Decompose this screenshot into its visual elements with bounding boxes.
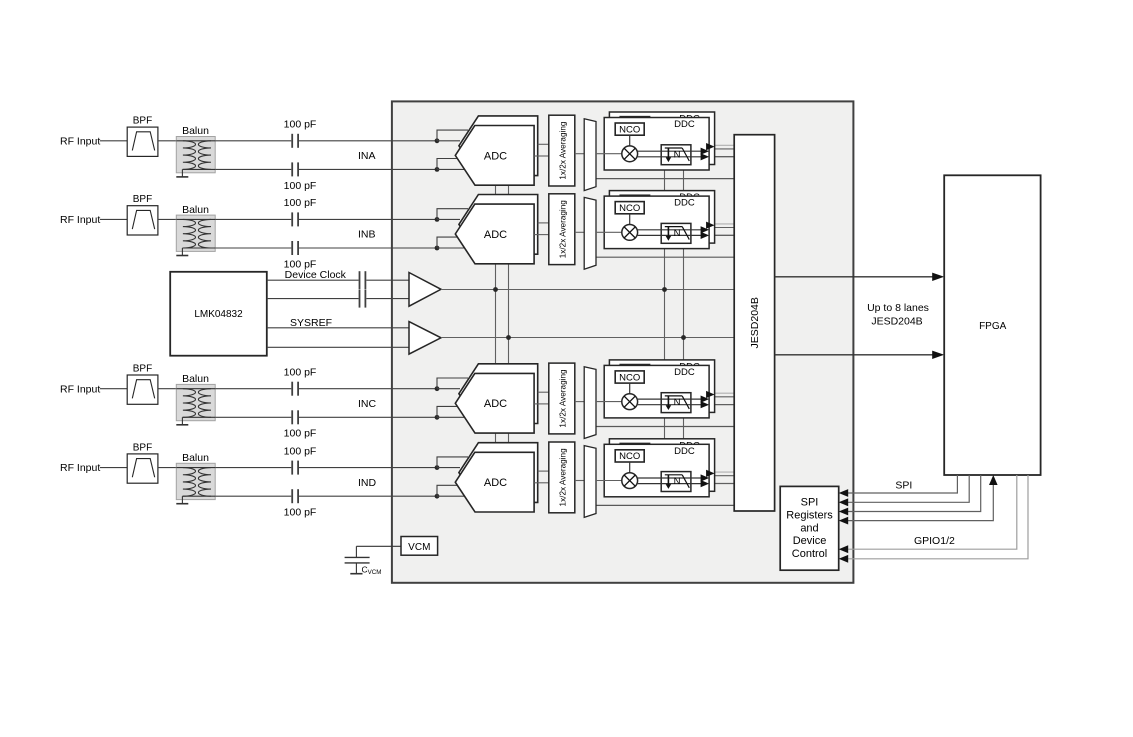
wire — [100, 388, 127, 390]
output mux (channel D) — [584, 446, 596, 518]
clock buffer (SYSREF) — [409, 322, 441, 355]
wire: channel C DDC outputs to JESD204B — [715, 392, 735, 394]
wire — [538, 391, 549, 393]
wire — [596, 401, 622, 403]
svg-text:RF Input: RF Input — [60, 462, 100, 474]
wire: SYSREF vertical rail (right) — [683, 169, 685, 451]
svg-text:100 pF: 100 pF — [284, 197, 317, 209]
ground — [350, 573, 362, 575]
wire — [215, 140, 291, 142]
ADC C (back) — [459, 364, 538, 424]
balun TA — [176, 137, 215, 173]
svg-text:INC: INC — [358, 398, 377, 410]
wire: SYSREF - — [267, 346, 409, 348]
wire — [158, 140, 176, 142]
balun TD — [176, 463, 215, 499]
wire: SPI 3 — [848, 475, 981, 512]
svg-text:VCM: VCM — [408, 542, 430, 553]
junction — [662, 287, 667, 292]
ground (balun) — [181, 248, 183, 256]
wire — [366, 279, 409, 281]
junction — [435, 167, 440, 172]
DDC (channel C) — [604, 365, 709, 418]
DDC (channel B, back) — [609, 191, 714, 244]
1x/2x averaging block (channel D) — [549, 442, 575, 513]
svg-text:NCO: NCO — [619, 203, 640, 214]
NCO (channel A) — [615, 123, 644, 135]
ADC D — [455, 452, 534, 512]
junction — [435, 386, 440, 391]
wire — [575, 153, 584, 155]
wire — [299, 467, 437, 469]
svg-text:SPI: SPI — [801, 497, 819, 509]
svg-text:RF Input: RF Input — [60, 214, 100, 226]
NCO (channel D) — [615, 450, 644, 462]
wire: back DDC output — [706, 222, 715, 229]
svg-text:100 pF: 100 pF — [284, 367, 317, 379]
wire: device clock vertical rail (left) — [495, 185, 497, 456]
svg-text:RF Input: RF Input — [60, 135, 100, 147]
mixer (channel B) — [622, 225, 638, 241]
svg-text:100 pF: 100 pF — [284, 119, 317, 131]
wire — [575, 401, 584, 403]
wire: SPI 4 (SDO) — [848, 484, 994, 521]
decimation filter &#8595;N (channel B) — [661, 223, 691, 243]
svg-text:N: N — [674, 228, 681, 239]
NCO (channel C) — [615, 371, 644, 383]
svg-text:100 pF: 100 pF — [284, 180, 317, 192]
svg-text:Device Clock: Device Clock — [285, 269, 347, 281]
wire — [538, 470, 549, 472]
wire: channel C DDC bypass to JESD204B — [596, 426, 734, 428]
band-pass filter BPF (channel A) — [127, 127, 158, 156]
band-pass filter BPF (channel C) — [127, 375, 158, 404]
DDC (channel C, back) — [609, 360, 714, 413]
svg-text:1x/2x Averaging: 1x/2x Averaging — [558, 200, 567, 259]
1x/2x averaging block (channel B) — [549, 194, 575, 265]
wire — [215, 416, 291, 418]
junction — [435, 494, 440, 499]
wire — [158, 218, 176, 220]
wire — [437, 378, 468, 389]
wire — [638, 477, 701, 479]
wire — [215, 495, 291, 497]
wire: serial lanes (upper) — [775, 276, 935, 278]
wire: GPIO2 — [848, 475, 1029, 559]
svg-text:BPF: BPF — [133, 194, 152, 205]
wire — [638, 234, 701, 236]
decimation glyphs — [667, 227, 669, 237]
DDC (channel A, back) — [609, 112, 714, 165]
DDC (channel A) — [604, 118, 709, 171]
wire — [596, 480, 622, 482]
svg-text:BPF: BPF — [133, 442, 152, 453]
wire: device clock - — [267, 298, 359, 300]
svg-text:FPGA: FPGA — [979, 321, 1007, 332]
capacitor 100 pF (device clock -) — [359, 290, 361, 308]
svg-text:Balun: Balun — [182, 125, 209, 137]
SPI Registers and Device Control block — [780, 486, 839, 570]
svg-text:100 pF: 100 pF — [284, 445, 317, 457]
wire — [437, 237, 461, 248]
capacitor 100 pF (INC+) — [291, 382, 293, 396]
wire — [158, 467, 176, 469]
svg-text:N: N — [674, 476, 681, 487]
wire: serial lanes (lower) — [775, 354, 935, 356]
clock generator LMK04832 — [170, 272, 267, 356]
wire — [299, 247, 437, 249]
svg-text:1x/2x Averaging: 1x/2x Averaging — [558, 369, 567, 428]
svg-text:Balun: Balun — [182, 204, 209, 216]
wire: SPI 2 — [848, 475, 970, 502]
svg-text:DDC: DDC — [674, 446, 695, 457]
decimation glyphs — [667, 475, 669, 485]
band-pass filter BPF (channel B) — [127, 206, 158, 235]
wire — [366, 298, 409, 300]
wire: channel D DDC bypass to JESD204B — [596, 504, 734, 506]
ADC device outline — [392, 101, 854, 582]
wire: device clock + — [267, 279, 359, 281]
wire: back DDC output — [706, 391, 715, 398]
svg-text:BPF: BPF — [133, 116, 152, 127]
wire: channel A DDC bypass to JESD204B — [596, 178, 734, 180]
wire: channel B DDC outputs to JESD204B — [715, 223, 735, 225]
wire — [299, 416, 437, 418]
wire: SYSREF distribution — [441, 337, 734, 339]
svg-text:N: N — [674, 397, 681, 408]
decimation glyphs — [667, 396, 669, 406]
DDC (channel D) — [604, 444, 709, 497]
svg-text:1x/2x Averaging: 1x/2x Averaging — [558, 448, 567, 507]
output mux (channel B) — [584, 197, 596, 269]
wire: GPIO1 — [848, 475, 1017, 549]
wire — [629, 135, 631, 146]
svg-text:ADC: ADC — [484, 477, 507, 489]
svg-text:GPIO1/2: GPIO1/2 — [914, 535, 955, 547]
wire — [299, 218, 437, 220]
DDC (channel D, back) — [609, 439, 714, 492]
svg-text:BPF: BPF — [133, 364, 152, 375]
balun TC — [176, 384, 215, 420]
wire — [158, 388, 176, 390]
svg-text:Balun: Balun — [182, 373, 209, 385]
decimation filter &#8595;N (channel D) — [661, 472, 691, 492]
output mux (channel A) — [584, 119, 596, 191]
wire — [638, 483, 701, 485]
wire — [100, 467, 127, 469]
wire — [575, 480, 584, 482]
FPGA block — [944, 175, 1040, 475]
balun TB — [176, 215, 215, 251]
svg-text:and: and — [800, 522, 818, 534]
wire — [596, 231, 622, 233]
svg-text:ADC: ADC — [484, 398, 507, 410]
wire — [538, 222, 549, 224]
capacitor 100 pF (IND+) — [291, 461, 293, 475]
svg-text:DDC: DDC — [674, 367, 695, 378]
capacitor 100 pF (IND&#8722;) — [291, 489, 293, 503]
svg-text:NCO: NCO — [619, 124, 640, 135]
ADC B (back) — [459, 195, 538, 255]
wire — [215, 168, 291, 170]
wire: back DDC output — [706, 470, 715, 477]
svg-text:Device: Device — [793, 535, 827, 547]
wire — [215, 467, 291, 469]
svg-text:IND: IND — [358, 477, 377, 489]
wire — [299, 495, 437, 497]
wire — [437, 485, 461, 496]
wire: device clock distribution — [441, 289, 734, 291]
NCO (channel C, back) — [620, 365, 649, 377]
svg-text:RF Input: RF Input — [60, 383, 100, 395]
wire: SPI 1 — [848, 475, 958, 493]
ground (balun) — [181, 417, 183, 425]
NCO (channel D, back) — [620, 444, 649, 456]
wire — [629, 462, 631, 473]
wire — [638, 156, 701, 158]
capacitor 100 pF (INA&#8722;) — [291, 162, 293, 176]
svg-text:Balun: Balun — [182, 452, 209, 464]
NCO (channel B, back) — [620, 195, 649, 207]
wire — [437, 159, 461, 170]
wire — [356, 545, 401, 547]
junction — [506, 335, 511, 340]
wire — [638, 150, 701, 152]
ADC A — [455, 126, 534, 186]
svg-text:LMK04832: LMK04832 — [194, 309, 243, 320]
svg-text:Up to 8 lanes: Up to 8 lanes — [867, 302, 929, 314]
wire — [638, 229, 701, 231]
svg-text:INB: INB — [358, 229, 376, 241]
ground (balun) — [181, 169, 183, 177]
capacitor 100 pF (device clock +) — [359, 271, 361, 289]
wire — [299, 140, 437, 142]
ADC A (back) — [459, 116, 538, 176]
wire — [575, 231, 584, 233]
svg-text:NCO: NCO — [619, 372, 640, 383]
junction — [681, 335, 686, 340]
capacitor 100 pF (INC&#8722;) — [291, 410, 293, 424]
wire: SYSREF + — [267, 327, 409, 329]
capacitor 100 pF (INB+) — [291, 212, 293, 226]
wire: channel A DDC outputs to JESD204B — [715, 144, 735, 146]
wire — [629, 383, 631, 394]
JESD204B block — [734, 135, 774, 511]
wire: channel B DDC bypass to JESD204B — [596, 256, 734, 258]
junction — [435, 217, 440, 222]
wire — [629, 214, 631, 225]
wire: back DDC output — [706, 143, 715, 150]
svg-text:Registers: Registers — [786, 509, 833, 521]
wire — [215, 388, 291, 390]
wire: channel D DDC outputs to JESD204B — [715, 471, 735, 473]
wire — [215, 218, 291, 220]
wire — [638, 404, 701, 406]
wire — [299, 388, 437, 390]
wire — [596, 153, 622, 155]
svg-text:DDC: DDC — [674, 119, 695, 130]
ground (balun) — [181, 496, 183, 504]
svg-text:JESD204B: JESD204B — [749, 297, 761, 348]
decimation glyphs — [667, 148, 669, 158]
decimation filter &#8595;N (channel C) — [661, 393, 691, 413]
svg-text:SPI: SPI — [895, 480, 912, 492]
DDC (channel B) — [604, 196, 709, 249]
decimation filter &#8595;N (channel A) — [661, 145, 691, 165]
junction — [435, 415, 440, 420]
VCM block — [401, 537, 438, 556]
wire — [299, 168, 437, 170]
ADC C — [455, 373, 534, 433]
1x/2x averaging block (channel A) — [549, 115, 575, 186]
svg-text:ADC: ADC — [484, 229, 507, 241]
junction — [435, 138, 440, 143]
NCO (channel A, back) — [620, 117, 649, 129]
capacitor 100 pF (INA+) — [291, 134, 293, 148]
svg-text:N: N — [674, 149, 681, 160]
wire — [437, 406, 461, 417]
svg-text:NCO: NCO — [619, 451, 640, 462]
wire — [538, 143, 549, 145]
svg-text:DDC: DDC — [674, 198, 695, 209]
NCO (channel B) — [615, 202, 644, 214]
junction — [493, 287, 498, 292]
svg-text:100 pF: 100 pF — [284, 507, 317, 519]
1x/2x averaging block (channel C) — [549, 363, 575, 434]
svg-text:SYSREF: SYSREF — [290, 317, 332, 329]
svg-text:ADC: ADC — [484, 150, 507, 162]
svg-text:1x/2x Averaging: 1x/2x Averaging — [558, 121, 567, 180]
wire: device clock vertical rail (right) — [664, 169, 666, 451]
wire — [100, 140, 127, 142]
svg-text:JESD204B: JESD204B — [871, 316, 922, 328]
junction — [435, 465, 440, 470]
wire — [437, 130, 468, 141]
mixer (channel D) — [622, 473, 638, 489]
band-pass filter BPF (channel D) — [127, 454, 158, 483]
ADC B — [455, 204, 534, 264]
wire: SYSREF vertical rail (left) — [508, 185, 510, 456]
wire — [638, 398, 701, 400]
wire — [437, 209, 468, 220]
ADC D (back) — [459, 443, 538, 503]
output mux (channel C) — [584, 367, 596, 439]
svg-text:100 pF: 100 pF — [284, 428, 317, 440]
svg-text:Control: Control — [792, 548, 827, 560]
mixer (channel C) — [622, 394, 638, 410]
wire — [100, 218, 127, 220]
capacitor 100 pF (INB&#8722;) — [291, 241, 293, 255]
clock buffer (device clock) — [409, 273, 441, 307]
mixer (channel A) — [622, 146, 638, 162]
capacitor CVCM — [345, 556, 370, 558]
svg-text:INA: INA — [358, 150, 376, 162]
junction — [435, 246, 440, 251]
wire — [215, 247, 291, 249]
wire — [437, 457, 468, 468]
